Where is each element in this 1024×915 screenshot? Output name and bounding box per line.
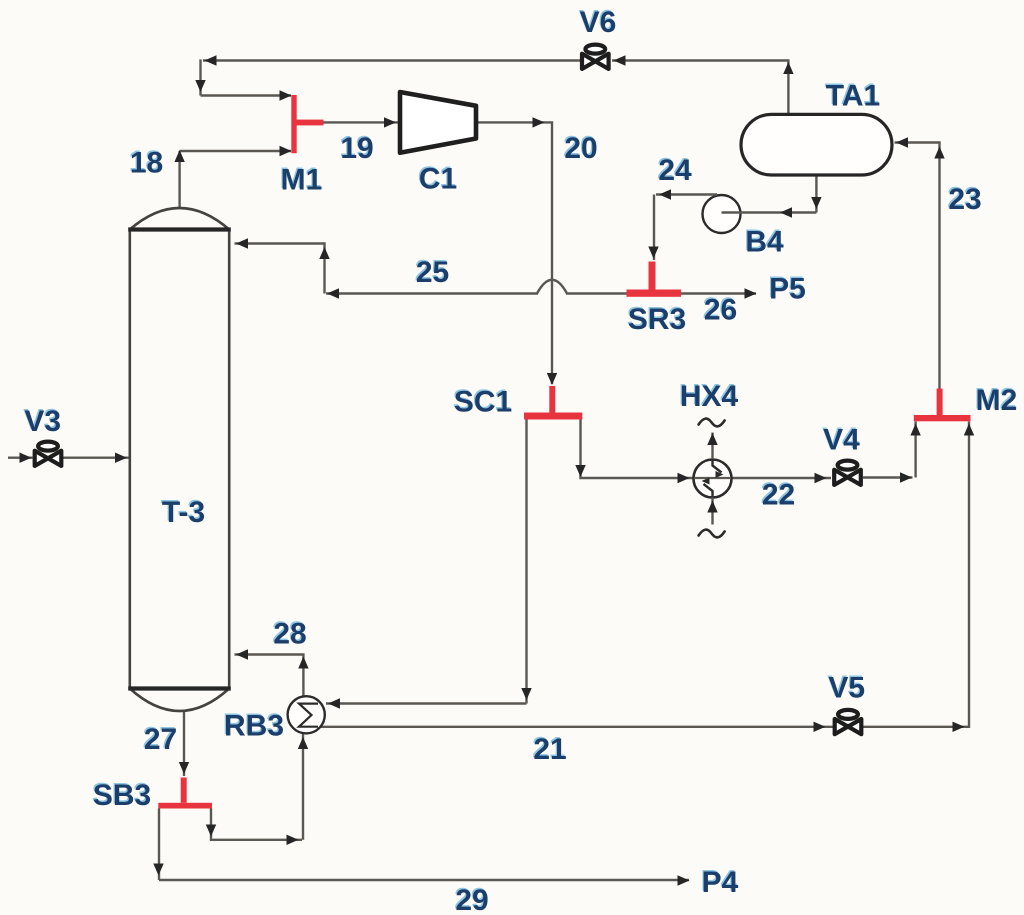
label 24 [657,152,692,187]
wire SC1 left leg down [521,419,531,704]
wire stream 21 RB3 to valve V5 [318,722,833,732]
HX4 top utility stub [699,419,725,459]
label 25 [415,254,450,289]
label SC1 [453,384,513,419]
svg-text:M1: M1 [281,164,323,197]
wire stream 19 M1 to compressor C1 [324,117,400,127]
wire valve V6 to left corner [203,55,580,65]
label SB3 [92,777,152,812]
wire stream 18 column top to M1 [174,146,291,210]
compressor C1 [400,92,476,153]
wire TA1 bottom outlet down [811,176,821,213]
svg-text:P5: P5 [769,273,806,306]
svg-text:M2: M2 [976,384,1018,417]
label P5 [768,271,806,306]
blower B4 [703,195,741,233]
label P4 [700,864,738,899]
valve V6 [582,45,609,69]
wire recycle TA1 top to junction [783,61,793,115]
label 19 [339,130,374,165]
wire stream 29 to P4 [159,875,690,885]
svg-text:27: 27 [144,723,177,756]
label M1 [279,162,322,197]
svg-text:24: 24 [658,154,692,187]
splitter SB3 [158,778,212,809]
label C1 [418,161,458,196]
svg-text:HX4: HX4 [680,380,739,413]
wire V3 to column T-3 [63,453,129,463]
label 21 [532,731,567,766]
label 26 [703,292,738,327]
label B4 [744,224,784,259]
svg-text:V5: V5 [828,672,865,705]
svg-text:18: 18 [130,147,163,180]
valve V4 [834,461,861,485]
svg-text:22: 22 [762,479,795,512]
wire SB3 right leg to RB3 bottom [206,734,308,845]
label V3 [23,403,61,438]
wire RB3 top stub to stream 28 [235,649,309,696]
label T-3 [161,494,206,529]
label V4 [822,422,860,457]
svg-text:V4: V4 [823,424,860,457]
svg-text:T-3: T-3 [162,496,205,529]
svg-text:P4: P4 [702,866,739,899]
svg-text:19: 19 [340,132,373,165]
wire SC1 right leg to HX4 [575,419,692,483]
column T-3 shell [128,208,231,711]
svg-text:21: 21 [533,733,566,766]
svg-text:C1: C1 [419,163,457,196]
wire stream 26 SR3 to P5 [681,288,757,298]
wire TA1 to B4 inlet [722,207,817,217]
svg-text:RB3: RB3 [224,710,284,743]
label SR3 [627,301,687,336]
valve V5 [835,710,862,734]
label M2 [974,382,1017,417]
valve V3 [35,442,62,466]
svg-text:V3: V3 [24,405,61,438]
svg-text:20: 20 [564,132,597,165]
label RB3 [223,708,284,743]
label V5 [827,670,865,705]
svg-text:V6: V6 [580,6,617,39]
wire stream 25 SR3 to column with hop [235,238,627,298]
wire stream 24 B4 outlet to SR3 [648,189,717,260]
label V6 [578,4,616,39]
wire into reboiler RB3 right side [326,698,527,708]
wire corner up into mixer M2 left inlet [910,422,920,478]
label 18 [129,145,164,180]
wire stream 22 HX4 to valve V4 [732,473,832,483]
wire corner down [195,59,205,95]
svg-text:SC1: SC1 [454,386,512,419]
wire feed into valve V3 [8,453,33,463]
label 20 [563,130,598,165]
label 27 [143,721,178,756]
svg-text:B4: B4 [745,226,784,259]
wire junction to valve V6 [612,55,790,65]
svg-text:28: 28 [273,618,306,651]
svg-text:23: 23 [948,183,981,216]
svg-text:26: 26 [704,294,737,327]
mixer M2 [914,389,971,422]
heat exchanger HX4 [694,460,732,498]
splitter SR3 [627,262,682,297]
svg-text:SB3: SB3 [93,779,151,812]
svg-text:29: 29 [455,884,488,915]
splitter SC1 [524,386,582,420]
label 28 [272,616,307,651]
label HX4 [679,378,739,413]
mixer M1 [291,95,323,153]
label 29 [454,882,489,915]
label 22 [761,477,796,512]
wire V4 to corner [863,472,913,482]
HX4 bottom utility stub [699,498,725,538]
reboiler RB3 [288,696,325,733]
wire stream 20 C1 to splitter SC1 [476,117,557,385]
wire SB3 left leg down [153,809,163,881]
tank TA1 [741,114,892,175]
label TA1 [825,78,881,113]
wire V5 to corner then up to M2 right inlet [862,422,974,733]
wire stream 27 column bottom to SB3 [179,711,189,776]
svg-text:SR3: SR3 [628,303,686,336]
wire corner to mixer M1 top inlet [201,90,292,100]
svg-text:TA1: TA1 [826,80,880,113]
wire stream 23 M2 to TA1 [895,137,945,388]
label 23 [947,181,982,216]
svg-text:25: 25 [416,256,449,289]
